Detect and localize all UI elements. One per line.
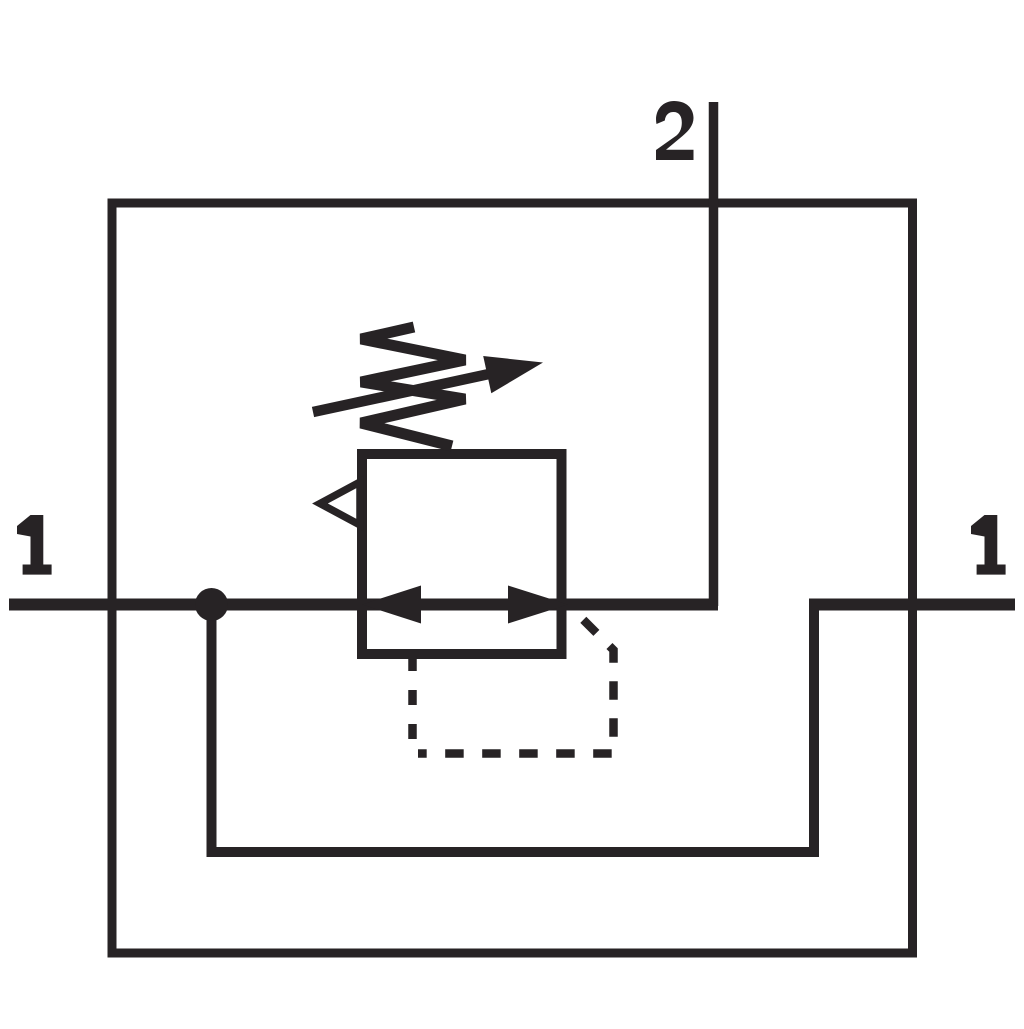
valve arrow right	[508, 586, 568, 624]
wire bypass riser	[809, 599, 819, 852]
adjustment arrow shaft	[313, 374, 489, 412]
label 1 (right port)	[971, 515, 1006, 575]
valve arrow left	[362, 586, 421, 624]
enclosure box	[112, 203, 913, 953]
label 2 (top port)	[656, 101, 694, 160]
pilot dashed line	[418, 609, 614, 754]
wire main line right (right port 1)	[809, 599, 1015, 611]
valve body V1	[362, 454, 562, 654]
pilot dashed line (valve bottom branch)	[408, 656, 417, 754]
wire bypass left drop	[207, 605, 217, 858]
adjustment arrowhead	[483, 356, 543, 393]
junction node	[195, 588, 228, 621]
port 2 line	[709, 102, 719, 606]
wire bypass bottom	[212, 847, 820, 857]
wire main line left (port 1 to port 2 junction)	[9, 599, 718, 611]
label 1 (left port)	[17, 515, 52, 575]
spring	[361, 327, 465, 446]
pilot triangle	[320, 482, 360, 525]
